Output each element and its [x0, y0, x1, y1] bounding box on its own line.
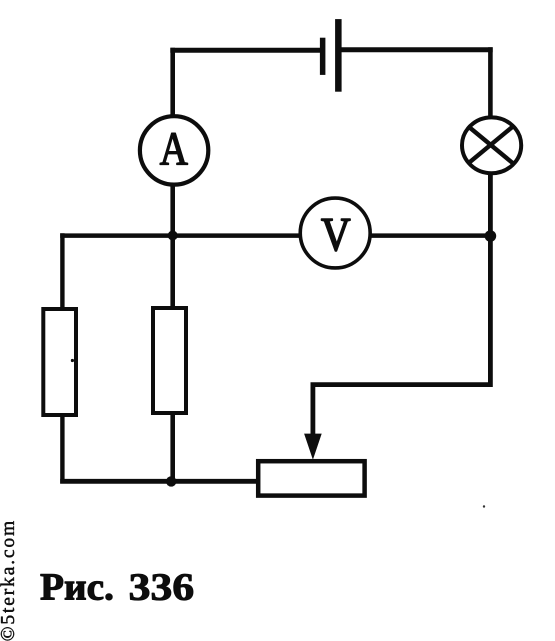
- voltmeter letter V: [322, 219, 351, 251]
- wire right vertical from top wire to lamp: [488, 47, 493, 117]
- ammeter letter A: [160, 133, 188, 164]
- speck inside resistor R1: [71, 359, 74, 362]
- caption Рис. 336 word 1: [41, 574, 113, 600]
- lamp cross diagonal 1: [468, 126, 514, 164]
- lamp circle: [462, 117, 521, 173]
- wire lamp branch down and across to rheostat arrow: [313, 174, 491, 437]
- wire left vertical from top wire to ammeter: [170, 48, 175, 116]
- node junction dot right of voltmeter: [485, 230, 497, 242]
- wire middle horizontal through voltmeter branch: [60, 233, 490, 238]
- wire top-right segment: [341, 47, 493, 52]
- resistor R2 body: [153, 308, 186, 413]
- wire top-left segment: [170, 48, 320, 53]
- arrowhead of rheostat slider: [304, 434, 322, 460]
- node junction dot below ammeter: [168, 231, 178, 241]
- battery negative short plate: [320, 38, 326, 75]
- wire from resistor R2 bottom to bottom wire: [170, 413, 175, 484]
- resistor R1 body: [43, 309, 76, 415]
- rheostat body: [258, 461, 364, 495]
- voltmeter V circle: [300, 198, 370, 268]
- node junction dot bottom wire: [166, 476, 176, 486]
- lamp cross diagonal 2: [468, 126, 514, 164]
- watermark 5terka.com vertical: [0, 521, 14, 640]
- wire from ammeter down through node to resistor R2: [170, 185, 175, 309]
- caption 336: [130, 574, 193, 600]
- wire bottom horizontal to rheostat: [60, 479, 258, 484]
- wire from resistor R1 bottom to bottom wire: [60, 415, 64, 484]
- speck below rheostat: [483, 505, 485, 507]
- battery positive long plate: [335, 19, 342, 92]
- wire left branch vertical to resistor R1: [60, 233, 64, 309]
- ammeter A circle: [140, 116, 208, 184]
